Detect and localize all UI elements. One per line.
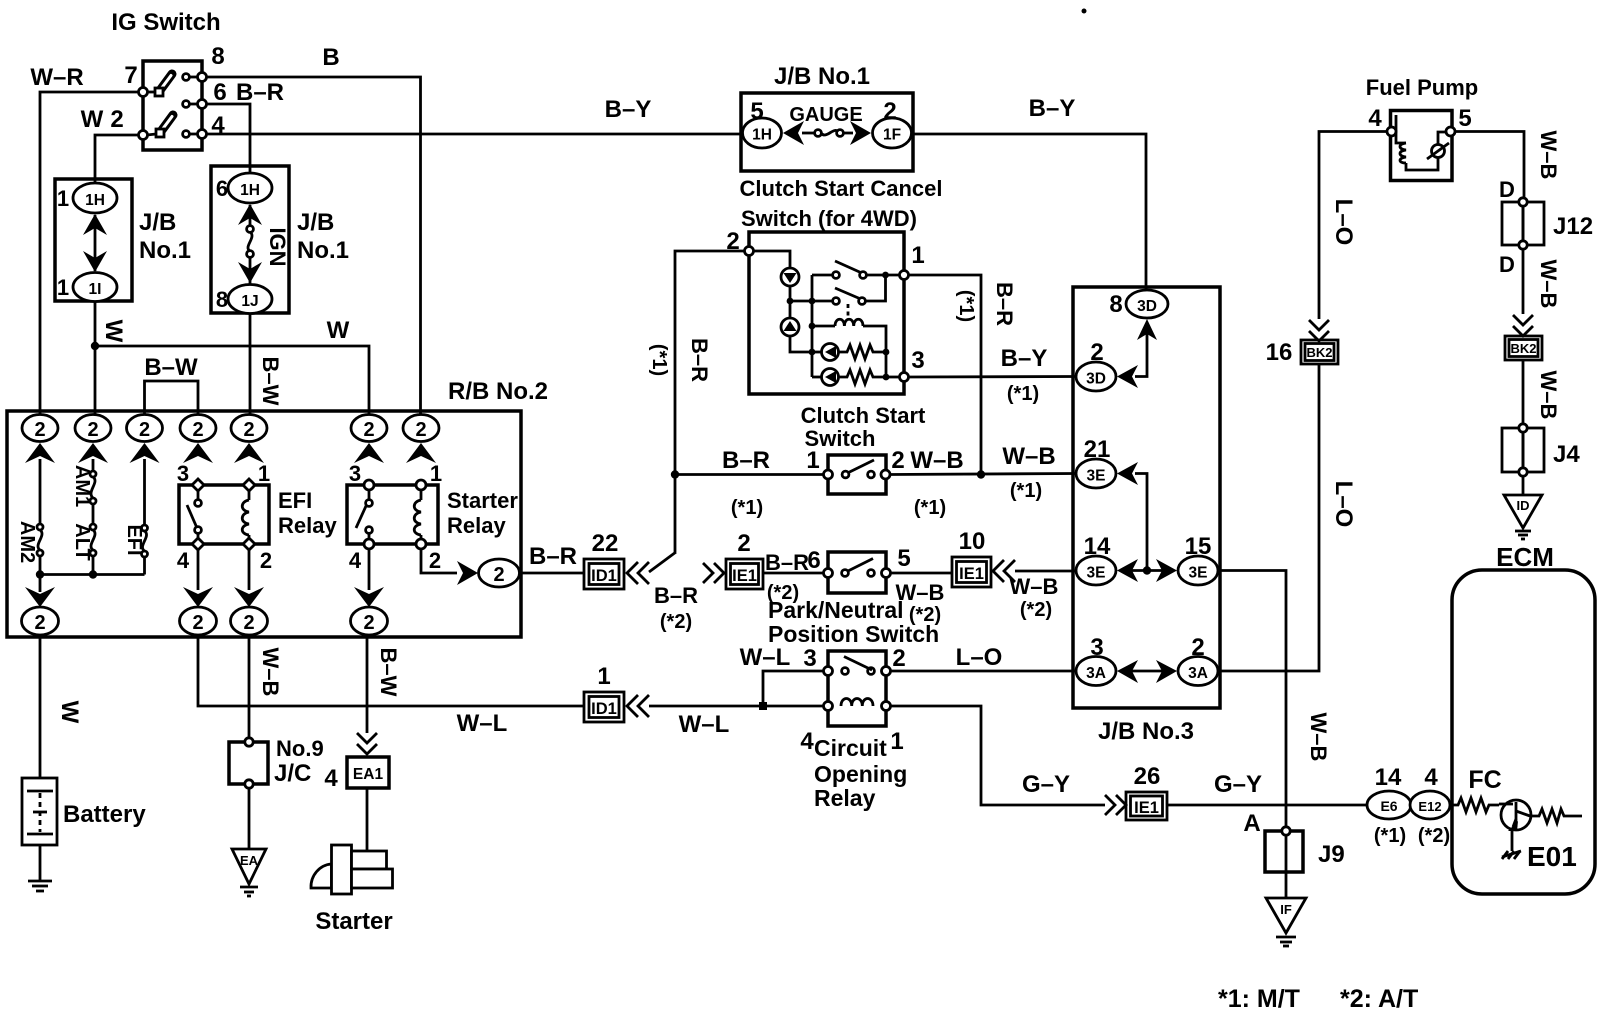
svg-text:Opening: Opening — [814, 761, 907, 787]
svg-text:IE1: IE1 — [1134, 799, 1159, 817]
svg-text:B–R: B–R — [765, 550, 809, 575]
bottom connector 2 (EFI relay coil out) — [231, 607, 268, 635]
starter relay sw output — [354, 549, 384, 607]
B-W bracket wire — [145, 381, 199, 415]
arrow left into 1H — [783, 121, 804, 145]
chevrons left into ID1 1 — [627, 695, 649, 717]
IG switch pin 2 — [139, 131, 148, 140]
svg-text:5: 5 — [1458, 105, 1471, 132]
EFI relay pin 2 — [243, 538, 255, 550]
svg-text:22: 22 — [592, 530, 619, 557]
svg-text:W–L: W–L — [679, 711, 730, 738]
fuse IGN — [247, 226, 254, 258]
fuse ALT — [90, 504, 96, 575]
connector E6 — [1367, 791, 1411, 819]
IG switch blade lower — [147, 115, 173, 137]
EFI relay pin 3 — [192, 479, 204, 491]
arrow right into 2 oval — [457, 561, 478, 585]
svg-text:8: 8 — [216, 287, 228, 312]
wire W-L to relay pin 4 — [649, 705, 824, 708]
svg-text:1: 1 — [258, 461, 270, 486]
wire B-R (*1) to clutch start switch — [675, 473, 824, 476]
svg-text:26: 26 — [1134, 763, 1161, 790]
svg-text:2: 2 — [192, 612, 203, 634]
starter relay coil output wire — [421, 549, 457, 573]
svg-text:2: 2 — [883, 98, 896, 125]
svg-text:FC: FC — [1468, 766, 1501, 794]
Starter relay coil — [414, 490, 421, 539]
svg-text:6: 6 — [807, 547, 820, 574]
svg-text:No.1: No.1 — [139, 237, 191, 264]
svg-text:W–B: W–B — [896, 580, 945, 605]
svg-text:2: 2 — [87, 419, 98, 441]
bottom connector 2 (EFI relay sw out) — [180, 607, 217, 635]
svg-text:BK2: BK2 — [1306, 345, 1332, 360]
svg-text:2: 2 — [110, 106, 123, 133]
connector IE1 pin 2 — [726, 559, 763, 589]
branch wire up to relay pin 3 — [763, 671, 824, 706]
svg-text:2: 2 — [892, 645, 905, 672]
chevrons left into IE1 10 — [993, 560, 1015, 582]
svg-text:3A: 3A — [1188, 665, 1208, 682]
svg-text:2: 2 — [737, 530, 750, 557]
bottom connector 2 (battery) — [22, 607, 59, 635]
svg-text:2: 2 — [363, 612, 374, 634]
chevrons left into ID1 22 — [627, 562, 649, 584]
EFI relay pin 1 — [243, 479, 255, 491]
fuel pump pin 5 — [1446, 127, 1455, 136]
svg-text:W–B: W–B — [1536, 131, 1561, 180]
svg-text:(*2): (*2) — [909, 604, 941, 626]
svg-text:(*2): (*2) — [660, 611, 692, 633]
svg-text:B–Y: B–Y — [605, 96, 652, 123]
svg-text:6: 6 — [216, 176, 228, 201]
Starter relay box — [347, 485, 438, 544]
J/B No.3 box — [1073, 287, 1220, 708]
connector 1H (IGN) — [228, 173, 272, 203]
svg-text:W: W — [100, 320, 127, 343]
svg-text:2: 2 — [34, 419, 45, 441]
double arrow between 1H and 1I — [83, 214, 107, 272]
svg-text:B–R: B–R — [992, 282, 1017, 326]
chevrons down into BK2 right — [1513, 315, 1533, 336]
svg-text:Clutch Start: Clutch Start — [801, 403, 926, 428]
junction square — [759, 702, 767, 710]
arrows between 3A and 3A — [1117, 660, 1177, 683]
svg-text:3E: 3E — [1087, 565, 1106, 582]
svg-text:BK2: BK2 — [1510, 341, 1536, 356]
wire B-W to EA1 — [366, 635, 369, 733]
svg-text:4: 4 — [1368, 105, 1382, 132]
Starter relay pin 3 — [364, 480, 374, 490]
svg-text:EA: EA — [240, 853, 259, 868]
svg-text:IGN: IGN — [265, 227, 290, 266]
svg-text:2: 2 — [243, 612, 254, 634]
svg-text:3: 3 — [177, 461, 189, 486]
svg-text:1: 1 — [430, 461, 442, 486]
svg-text:Clutch Start Cancel: Clutch Start Cancel — [740, 176, 943, 201]
wire 15(3E) to J9 column — [1218, 571, 1286, 827]
EFI relay outputs — [183, 550, 264, 607]
svg-text:3D: 3D — [1086, 371, 1106, 388]
svg-text:AM1: AM1 — [71, 465, 93, 507]
svg-text:L–O: L–O — [1330, 481, 1357, 528]
wire B-Y from pin4 to GAUGE — [207, 133, 744, 136]
ECM pin ID triangle — [1504, 495, 1542, 539]
wire to EA ground — [248, 788, 251, 849]
wire G-Y to E6 — [1167, 804, 1367, 807]
Starter relay switch — [356, 490, 372, 539]
cancel switch contact 2 — [812, 275, 886, 304]
svg-text:3E: 3E — [1087, 468, 1106, 485]
svg-text:ID1: ID1 — [591, 700, 617, 718]
svg-text:*2: A/T: *2: A/T — [1340, 985, 1418, 1013]
chevrons down into BK2 — [1309, 320, 1329, 341]
svg-text:IE1: IE1 — [732, 567, 757, 585]
connector 3(3A) — [1076, 657, 1116, 686]
Starter relay pin 2 — [416, 539, 426, 549]
svg-text:W–R: W–R — [30, 64, 83, 91]
svg-text:A: A — [1243, 810, 1260, 837]
battery ground — [28, 845, 52, 891]
fuse GAUGE — [802, 130, 853, 137]
wire pin5 to IE1 10 — [891, 572, 953, 575]
Clutch start switch — [824, 455, 891, 494]
svg-text:IE1: IE1 — [959, 565, 984, 583]
svg-text:D: D — [1499, 252, 1515, 277]
svg-text:W–B: W–B — [910, 447, 963, 474]
connector BK2 (right) — [1505, 336, 1542, 360]
wire B-R from pin6 to 6(1H) — [207, 104, 251, 173]
connector IE1 pin 26 — [1126, 792, 1167, 820]
svg-text:4: 4 — [800, 728, 814, 755]
wire J12 to BK2 — [1522, 249, 1525, 314]
top connector 2 (EFI fuse) — [127, 415, 163, 442]
motor 2 with resistor — [812, 352, 900, 386]
svg-text:1: 1 — [57, 186, 69, 211]
svg-text:2: 2 — [192, 419, 203, 441]
wire IE1 to park/neutral — [763, 572, 824, 575]
svg-text:(*1): (*1) — [955, 290, 977, 322]
svg-text:D: D — [1499, 177, 1515, 202]
svg-text:J/B: J/B — [139, 209, 176, 236]
svg-text:EFI: EFI — [278, 488, 312, 513]
connector 2(3D) — [1076, 362, 1116, 391]
chevrons right into IE1 26 — [1105, 795, 1126, 815]
fuse EFI — [142, 459, 148, 575]
wire W branch to starter relay column — [95, 346, 369, 415]
svg-text:3: 3 — [911, 347, 924, 374]
battery — [22, 778, 57, 845]
wire EA1 to starter — [366, 788, 369, 851]
svg-text:1H: 1H — [752, 127, 772, 144]
ground EA triangle — [232, 849, 266, 896]
wire from cancel pin 1 — [909, 275, 986, 479]
svg-text:J/B No.3: J/B No.3 — [1098, 718, 1194, 745]
wire L-O from pump pin 4 — [1319, 132, 1387, 320]
wire lamp2 down to motor row — [790, 336, 812, 352]
svg-text:Battery: Battery — [63, 801, 146, 828]
svg-text:L–O: L–O — [1330, 199, 1357, 246]
svg-text:2: 2 — [260, 548, 272, 573]
connector 21(3E) — [1076, 459, 1116, 488]
svg-text:4: 4 — [1424, 764, 1438, 791]
wire W below 1I — [91, 302, 99, 416]
svg-text:W–B: W–B — [1002, 443, 1055, 470]
wire B-Y from 1F to 8(3D) — [912, 134, 1147, 291]
svg-text:3: 3 — [349, 461, 361, 486]
internal bus vertical — [809, 275, 816, 377]
svg-text:8: 8 — [211, 43, 224, 70]
svg-text:Circuit: Circuit — [814, 735, 887, 761]
connector 14(3E) — [1076, 556, 1116, 585]
wire from cancel pin 2 (B-R *1) — [671, 251, 745, 552]
wire W-L from EFI relay out — [198, 635, 584, 706]
svg-text:B–Y: B–Y — [1001, 345, 1048, 372]
chevrons right into IE1 2 — [703, 563, 724, 583]
svg-text:3D: 3D — [1137, 298, 1157, 315]
svg-text:Relay: Relay — [814, 785, 876, 811]
cancel switch pin 1 — [900, 271, 909, 280]
IG switch pin 4 — [183, 130, 207, 139]
Starter relay pin 1 — [416, 480, 426, 490]
cancel internal wire pin2 to lamp — [754, 251, 791, 268]
J/B No.1 left box — [55, 179, 132, 301]
svg-text:2: 2 — [415, 419, 426, 441]
EFI relay pin 4 — [192, 538, 204, 550]
svg-text:2: 2 — [493, 564, 504, 586]
svg-text:1: 1 — [57, 275, 69, 300]
speck — [1082, 9, 1087, 14]
svg-text:J/C: J/C — [274, 760, 311, 787]
junction connector No.9 J/C — [229, 738, 268, 788]
wire W-B from pump pin 5 — [1455, 132, 1524, 203]
arrow into 2(3D) and wire up to 8(3D) — [1117, 319, 1157, 388]
svg-text:5: 5 — [750, 98, 763, 125]
svg-text:No.9: No.9 — [276, 736, 324, 761]
resistor FC input — [1452, 798, 1499, 812]
battery feed wire — [39, 635, 42, 778]
svg-text:B–W: B–W — [258, 357, 283, 406]
IG switch pin 7 — [139, 88, 148, 97]
svg-text:1: 1 — [597, 663, 610, 690]
arrow into 21(3E) and wire down — [1117, 462, 1147, 571]
svg-text:4: 4 — [349, 548, 362, 573]
Circuit opening relay box — [824, 651, 891, 726]
svg-text:1J: 1J — [241, 293, 258, 310]
svg-text:3: 3 — [803, 645, 816, 672]
arrows up into top connectors — [25, 443, 55, 463]
diagonal wire from B-R (*1) line — [649, 552, 676, 572]
connector 1H (gauge) — [743, 118, 782, 148]
lamp 1 (down triangle) — [781, 268, 799, 286]
svg-text:(*1): (*1) — [1010, 480, 1042, 502]
connector IE1 pin 10 — [952, 557, 991, 587]
svg-text:2: 2 — [139, 419, 150, 441]
fuel pump pin 4 — [1387, 127, 1396, 136]
junction connector J9 — [1265, 827, 1303, 872]
svg-text:7: 7 — [124, 62, 137, 89]
wire BK2 to J4 — [1522, 360, 1525, 428]
svg-text:AM2: AM2 — [16, 521, 38, 563]
chevrons down into EA1 — [357, 733, 377, 754]
connector 1I (J/B No.1 left) — [73, 273, 117, 302]
svg-text:EA1: EA1 — [353, 766, 384, 783]
svg-text:J4: J4 — [1553, 441, 1580, 468]
wire J4 to ID triangle — [1522, 476, 1525, 495]
svg-text:Relay: Relay — [278, 513, 337, 538]
svg-text:2: 2 — [243, 419, 254, 441]
svg-text:Relay: Relay — [447, 513, 506, 538]
connector 1H (J/B No.1 left) — [73, 183, 117, 213]
wire lamp junction to bus — [790, 300, 812, 303]
svg-text:B–R: B–R — [236, 79, 284, 106]
wire W-B (*1) to 21(3E) — [890, 474, 1076, 475]
bottom connector 2 (starter relay out) — [351, 607, 388, 635]
svg-text:Park/Neutral: Park/Neutral — [768, 597, 904, 623]
svg-text:21: 21 — [1084, 436, 1111, 463]
connector 2 (B-R out) — [479, 559, 520, 587]
wire B-Y from cancel pin 3 to 2(3D) — [909, 375, 1077, 378]
svg-text:W: W — [327, 317, 350, 344]
svg-text:Starter: Starter — [447, 488, 518, 513]
connector 8(3D) — [1126, 290, 1168, 318]
svg-text:15: 15 — [1185, 533, 1212, 560]
svg-text:8: 8 — [1109, 291, 1122, 318]
transistor FC — [1499, 800, 1531, 831]
Park/Neutral position switch — [824, 552, 891, 593]
wire B-W from 1J to EFI relay — [249, 314, 252, 416]
svg-text:(*1): (*1) — [1007, 383, 1039, 405]
wire L-O from BK2 to 2(3A) — [1218, 365, 1319, 671]
starter symbol — [311, 845, 393, 894]
connector BK2 pin 16 — [1301, 340, 1338, 364]
connector ID1 pin 1 — [584, 692, 624, 722]
arrow down into 1J — [238, 257, 262, 284]
R/B No.2 box — [7, 411, 521, 637]
svg-text:B–R: B–R — [687, 338, 712, 382]
IG switch SW1 box — [139, 61, 207, 150]
connector 2(3A) — [1178, 657, 1218, 686]
J/B No.1 gauge box — [741, 93, 913, 171]
svg-text:14: 14 — [1084, 533, 1111, 560]
svg-text:Fuel Pump: Fuel Pump — [1366, 75, 1478, 100]
wire J9 to IF ground — [1285, 872, 1288, 898]
svg-text:3E: 3E — [1189, 565, 1208, 582]
Starter relay pin 4 — [364, 539, 374, 549]
svg-text:5: 5 — [897, 545, 910, 572]
svg-text:2: 2 — [34, 612, 45, 634]
svg-text:J12: J12 — [1553, 213, 1593, 240]
svg-text:J9: J9 — [1318, 841, 1345, 868]
svg-text:ALT: ALT — [71, 523, 93, 560]
svg-text:2: 2 — [429, 548, 441, 573]
svg-text:(*1): (*1) — [1374, 825, 1406, 847]
svg-text:1F: 1F — [883, 127, 901, 144]
cancel switch pin 3 — [900, 373, 909, 382]
svg-text:16: 16 — [1266, 339, 1293, 366]
svg-text:G–Y: G–Y — [1214, 771, 1262, 798]
wire B from pin8 — [207, 77, 421, 415]
svg-text:B–R: B–R — [529, 543, 577, 570]
svg-text:E6: E6 — [1380, 798, 1397, 814]
svg-text:(*2): (*2) — [1020, 599, 1052, 621]
svg-text:EFI: EFI — [123, 524, 145, 555]
svg-text:J/B No.1: J/B No.1 — [774, 63, 870, 90]
svg-text:B–R: B–R — [654, 583, 698, 608]
svg-text:W–B: W–B — [1536, 260, 1561, 309]
svg-text:W: W — [56, 701, 83, 724]
svg-text:B–W: B–W — [144, 354, 198, 381]
svg-text:No.1: No.1 — [297, 237, 349, 264]
connector ID1 pin 22 — [584, 559, 624, 589]
svg-text:B–R: B–R — [722, 447, 770, 474]
svg-text:2: 2 — [1090, 339, 1103, 366]
EFI relay switch — [187, 491, 201, 538]
connector 1F (gauge) — [873, 118, 912, 148]
arrow right into 1F — [850, 121, 871, 145]
wire B-R to ID1 — [520, 572, 585, 575]
wire L-O from relay pin 2 to 3(3A) — [891, 670, 1077, 673]
svg-text:ECM: ECM — [1496, 542, 1554, 572]
transistor emitter to ground E01 — [1502, 830, 1521, 859]
svg-text:4: 4 — [324, 765, 338, 792]
svg-text:W–B: W–B — [1010, 574, 1059, 599]
top connector 2 (EFI relay sw) — [180, 415, 216, 442]
svg-text:(*2): (*2) — [1418, 825, 1450, 847]
svg-text:Starter: Starter — [315, 908, 392, 935]
fuse AM1 — [90, 459, 96, 504]
resistor FC output — [1530, 809, 1582, 823]
cancel switch pin 2 — [745, 247, 754, 256]
svg-text:B–W: B–W — [376, 648, 401, 697]
IG switch pin 8 — [183, 73, 207, 82]
svg-text:1: 1 — [890, 728, 903, 755]
svg-text:1H: 1H — [240, 182, 260, 199]
fuse AM2 — [37, 459, 43, 575]
svg-text:1H: 1H — [85, 192, 105, 209]
wire W from pin2 to 1H — [95, 135, 139, 183]
cancel switch contact 1 — [812, 261, 900, 278]
svg-text:W–L: W–L — [457, 710, 508, 737]
top connector 2 (starter relay sw) — [351, 415, 387, 442]
connector 1J (IGN) — [228, 285, 272, 314]
arrow down to battery connector — [25, 575, 55, 608]
svg-text:B–Y: B–Y — [1029, 95, 1076, 122]
svg-text:2: 2 — [363, 419, 374, 441]
EFI relay box — [179, 485, 269, 544]
wire W-R from pin7 — [40, 92, 139, 415]
junction connector J4 — [1502, 424, 1544, 476]
svg-text:J/B: J/B — [297, 209, 334, 236]
svg-text:6: 6 — [213, 79, 226, 106]
ground IF triangle — [1266, 898, 1306, 946]
svg-text:ID: ID — [1517, 498, 1530, 513]
arrows between 14 and 15 — [1117, 559, 1177, 582]
svg-text:IF: IF — [1280, 902, 1292, 917]
svg-text:1: 1 — [806, 447, 819, 474]
svg-text:W–L: W–L — [740, 644, 791, 671]
motor 1 with resistor — [812, 344, 889, 361]
wire lamp1-lamp2 — [787, 286, 794, 318]
Fuel pump box — [1391, 111, 1453, 181]
cancel coil — [812, 319, 886, 352]
arrow up into 1H — [238, 204, 262, 228]
IG switch pin 6 — [183, 100, 207, 109]
svg-text:3: 3 — [1090, 634, 1103, 661]
svg-text:*1: M/T: *1: M/T — [1218, 985, 1300, 1013]
IG switch blade upper — [147, 74, 172, 96]
